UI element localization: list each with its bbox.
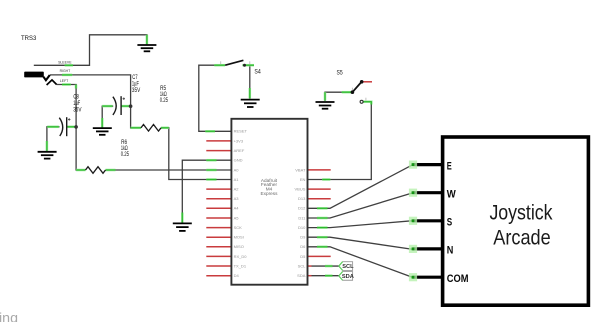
svg-text:+3V3: +3V3 (234, 138, 244, 143)
svg-text:VBUS: VBUS (294, 187, 305, 192)
svg-text:A0: A0 (234, 167, 240, 172)
svg-text:E: E (447, 160, 452, 172)
svg-text:D12: D12 (298, 206, 306, 211)
svg-text:Joystick: Joystick (489, 202, 552, 225)
svg-text:0.25: 0.25 (160, 97, 169, 104)
svg-text:D13: D13 (298, 196, 306, 201)
svg-text:VBAT: VBAT (295, 167, 306, 172)
svg-text:Express: Express (261, 191, 279, 196)
svg-text:D11: D11 (298, 215, 306, 220)
svg-text:ing: ing (0, 310, 18, 322)
svg-text:RIGHT: RIGHT (60, 69, 71, 73)
svg-text:Arcade: Arcade (493, 227, 551, 250)
svg-text:D10: D10 (298, 225, 306, 230)
svg-text:EN: EN (300, 177, 306, 182)
svg-text:RX_D0: RX_D0 (234, 254, 248, 259)
svg-text:MISO: MISO (234, 244, 244, 249)
svg-text:TX_D1: TX_D1 (234, 263, 247, 268)
svg-text:LEFT: LEFT (60, 79, 69, 83)
svg-text:COM: COM (447, 273, 469, 285)
svg-text:35V: 35V (73, 107, 82, 114)
svg-text:35V: 35V (132, 87, 141, 94)
svg-text:N: N (447, 245, 454, 257)
svg-text:S4: S4 (254, 68, 261, 75)
svg-text:S5: S5 (337, 69, 343, 76)
svg-text:SCL: SCL (342, 264, 354, 270)
svg-text:SDA: SDA (297, 273, 306, 278)
svg-text:RESET: RESET (234, 129, 248, 134)
svg-text:S: S (447, 217, 452, 229)
svg-text:0.25: 0.25 (121, 151, 130, 158)
svg-text:A2: A2 (234, 187, 240, 192)
svg-text:MOSI: MOSI (234, 235, 244, 240)
svg-text:SCL: SCL (298, 263, 307, 268)
svg-text:GND: GND (234, 158, 243, 163)
svg-text:A1: A1 (234, 177, 240, 182)
svg-text:SCK: SCK (234, 225, 243, 230)
svg-text:A5: A5 (234, 215, 240, 220)
svg-text:TRS3: TRS3 (21, 35, 37, 42)
svg-text:D9: D9 (300, 235, 306, 240)
svg-text:D4: D4 (234, 273, 240, 278)
svg-text:D6: D6 (300, 244, 306, 249)
svg-text:W: W (447, 188, 457, 200)
svg-text:AREF: AREF (234, 148, 245, 153)
svg-text:A4: A4 (234, 206, 240, 211)
svg-text:A3: A3 (234, 196, 240, 201)
svg-text:SLEEVE: SLEEVE (58, 60, 72, 64)
svg-text:D5: D5 (300, 254, 306, 259)
svg-text:SDA: SDA (342, 274, 354, 280)
